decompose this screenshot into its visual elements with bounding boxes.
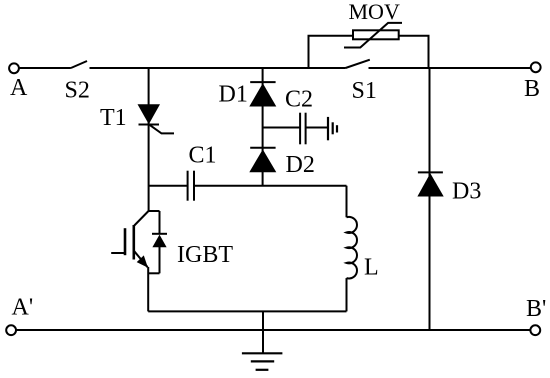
- svg-text:T1: T1: [100, 105, 127, 131]
- svg-text:B: B: [524, 76, 540, 102]
- svg-text:A': A': [12, 295, 34, 321]
- svg-text:D3: D3: [452, 179, 481, 205]
- svg-text:C2: C2: [285, 87, 313, 113]
- svg-text:D1: D1: [219, 82, 248, 108]
- svg-text:B': B': [526, 296, 546, 322]
- svg-text:MOV: MOV: [349, 0, 400, 24]
- svg-text:S2: S2: [65, 78, 90, 104]
- svg-text:S1: S1: [352, 78, 377, 104]
- svg-text:L: L: [364, 255, 379, 281]
- svg-text:C1: C1: [189, 143, 217, 169]
- svg-text:IGBT: IGBT: [177, 242, 233, 268]
- svg-text:D2: D2: [286, 152, 315, 178]
- svg-text:A: A: [10, 75, 28, 101]
